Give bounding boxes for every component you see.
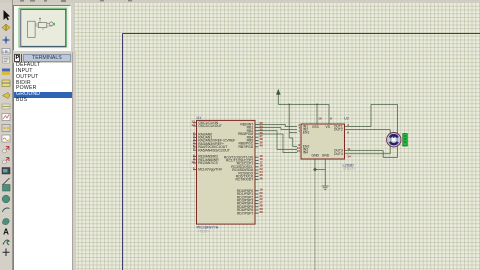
svg-text:VSS: VSS (312, 125, 319, 129)
svg-text:RC7/RX/DT: RC7/RX/DT (236, 178, 254, 182)
svg-text:U2: U2 (344, 116, 349, 120)
svg-text:A: A (3, 228, 9, 237)
svg-text:8: 8 (330, 117, 332, 121)
svg-text:14: 14 (191, 123, 195, 127)
svg-text:RA5/AN4/SS/C2OUT: RA5/AN4/SS/C2OUT (198, 148, 230, 152)
svg-text:<TEXT>: <TEXT> (343, 167, 355, 171)
svg-text:30: 30 (259, 210, 263, 214)
svg-text:15: 15 (297, 149, 301, 153)
svg-text:IN4: IN4 (303, 151, 308, 155)
svg-text:EN1: EN1 (303, 131, 310, 135)
svg-text:1: 1 (298, 129, 300, 133)
svg-text:OUT2: OUT2 (334, 128, 343, 132)
svg-text:16: 16 (318, 117, 322, 121)
svg-text:RE2/AN7/CS: RE2/AN7/CS (198, 161, 218, 165)
svg-text:LBL: LBL (2, 49, 10, 54)
svg-text:RD7/PSP7: RD7/PSP7 (237, 211, 253, 215)
svg-text:U1: U1 (197, 116, 202, 120)
svg-text:26: 26 (259, 176, 263, 180)
svg-text:RB7/PGD: RB7/PGD (239, 145, 254, 149)
svg-text:40: 40 (259, 144, 263, 148)
svg-text:VS: VS (326, 125, 331, 129)
svg-text:OSC2/CLKOUT: OSC2/CLKOUT (198, 124, 222, 128)
svg-text:<TEXT>: <TEXT> (198, 229, 210, 233)
svg-text:6: 6 (347, 130, 349, 134)
svg-text:OUT4: OUT4 (334, 152, 343, 156)
svg-text:11: 11 (347, 147, 351, 151)
svg-text:GND: GND (312, 153, 320, 157)
svg-text:GND: GND (322, 153, 330, 157)
svg-text:MCLR/Vpp/THV: MCLR/Vpp/THV (198, 168, 223, 172)
svg-text:14: 14 (347, 155, 351, 159)
svg-text:10: 10 (191, 160, 195, 164)
